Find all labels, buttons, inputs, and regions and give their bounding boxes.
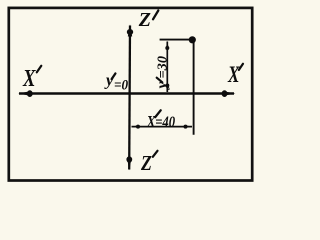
svg-text:X: X	[22, 65, 36, 92]
axis Z' wire	[128, 26, 131, 170]
axis X' wire	[19, 92, 234, 94]
label X' right	[227, 63, 243, 88]
axis X' left arrowhead	[18, 91, 30, 95]
svg-text:=40: =40	[155, 114, 175, 131]
svg-text:X: X	[227, 63, 240, 88]
svg-text:=0: =0	[114, 77, 128, 94]
border frame	[9, 8, 252, 181]
label Z' top	[138, 9, 159, 31]
axis Z' top arrowhead	[128, 24, 132, 36]
label Y'=0	[104, 70, 128, 93]
extension line horizontal from point	[160, 39, 192, 41]
label X' left	[22, 65, 41, 92]
label Y'=30 rotated	[155, 56, 171, 91]
point marker	[189, 36, 196, 43]
axis X' right arrowhead	[224, 91, 236, 95]
svg-text:Z: Z	[140, 153, 152, 176]
label X'=40	[146, 110, 175, 131]
svg-text:=30: =30	[156, 56, 171, 79]
dimension line X'=40	[132, 126, 193, 128]
extension line vertical from point	[193, 42, 195, 135]
axis Z' bottom arrowhead	[127, 158, 132, 171]
dimension line Y'=30	[166, 42, 168, 93]
label Z' bottom	[140, 151, 157, 176]
svg-text:Z: Z	[138, 9, 151, 31]
